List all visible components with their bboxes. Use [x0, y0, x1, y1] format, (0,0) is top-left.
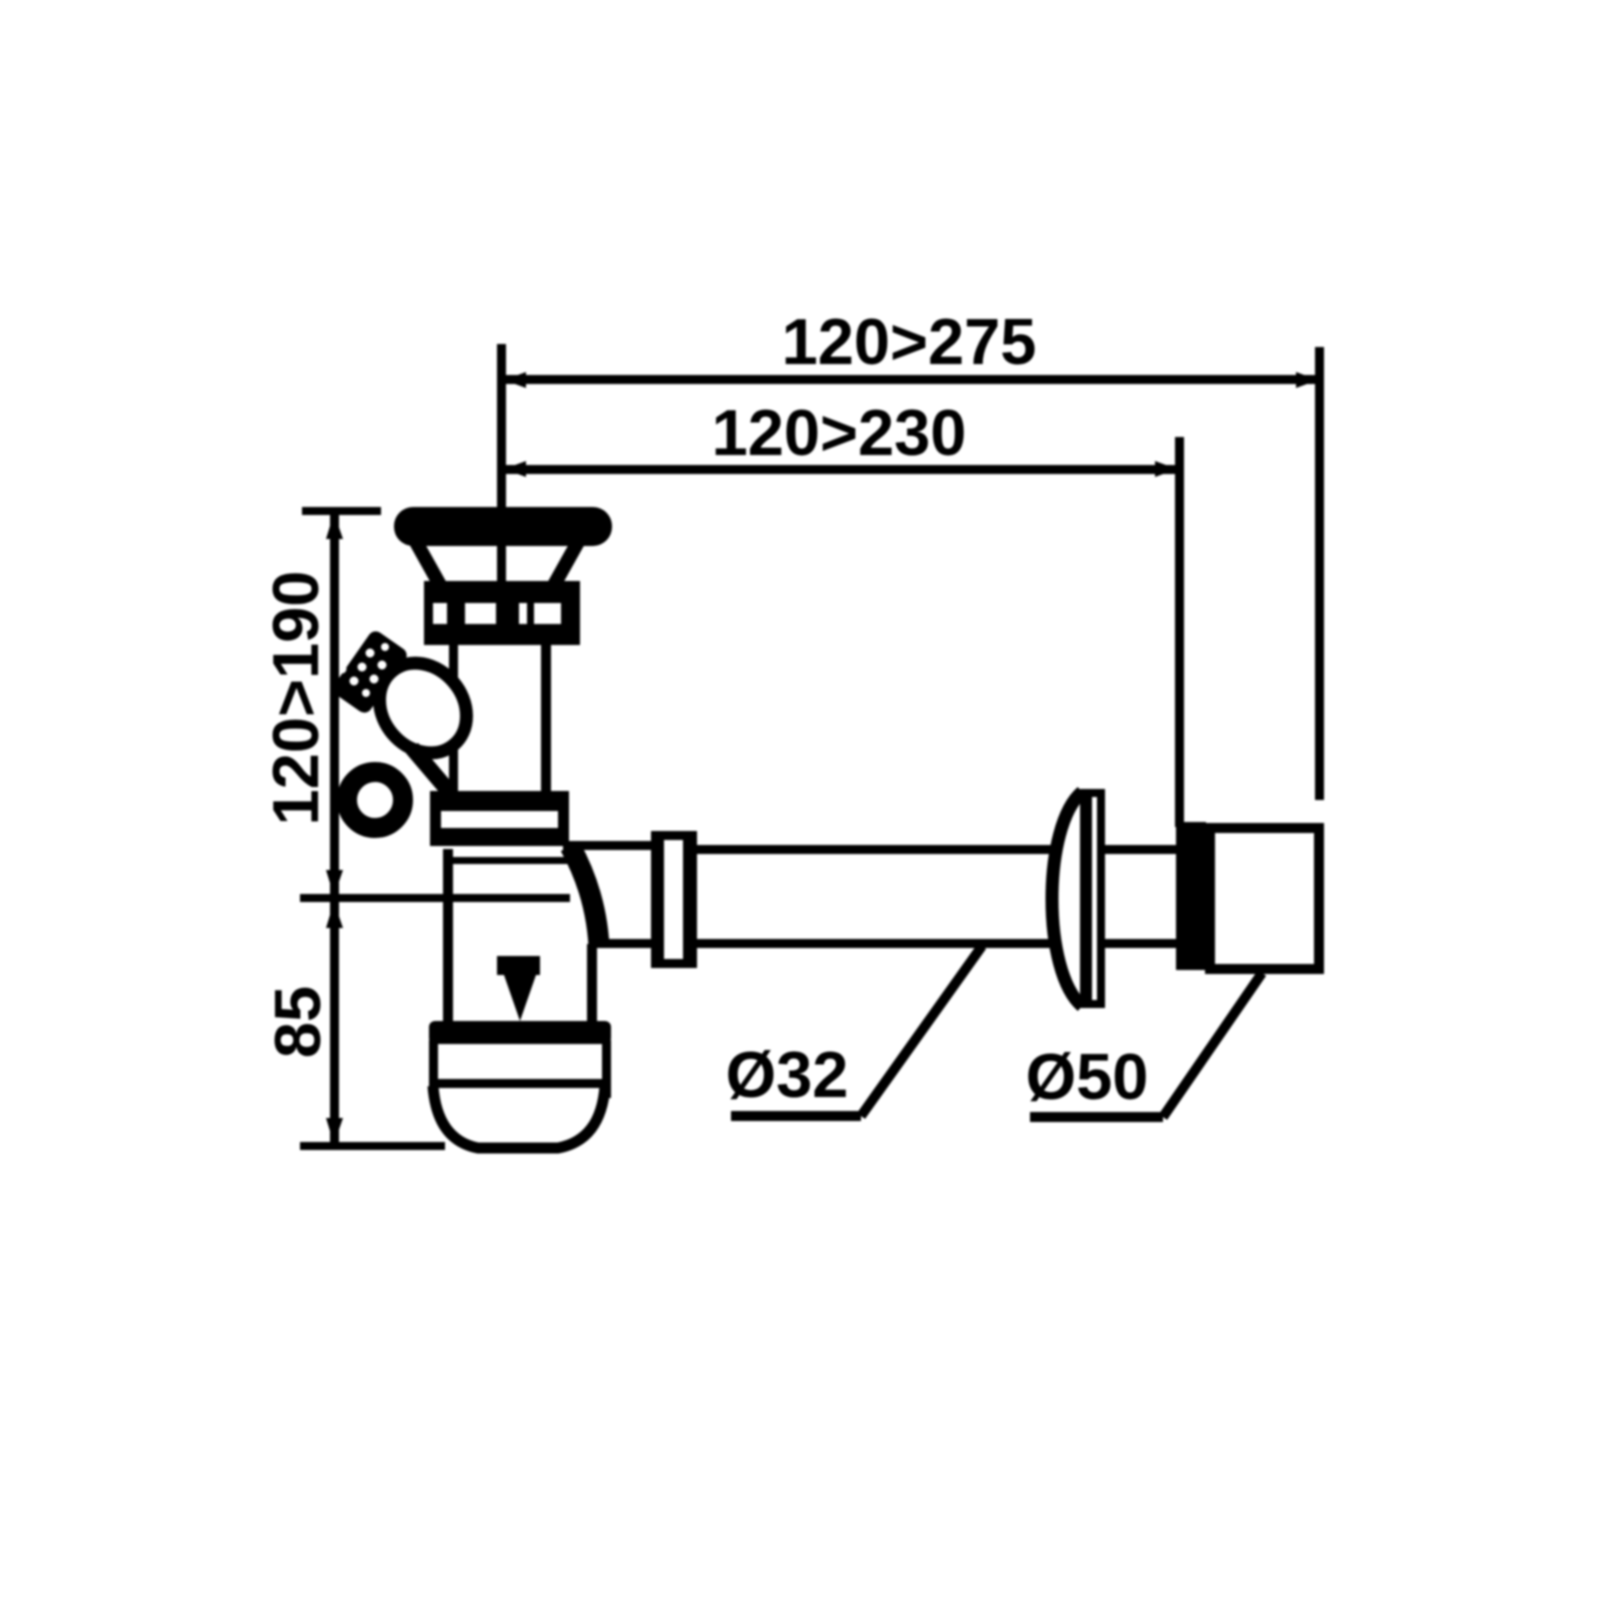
overflow knurled nut	[330, 628, 410, 715]
bottom extension line	[300, 1142, 445, 1150]
svg-text:Ø32: Ø32	[726, 1038, 849, 1111]
wall rosette disc	[1080, 789, 1105, 1008]
arrow bottom 120>190	[326, 870, 343, 896]
O50 underline	[1030, 1112, 1163, 1122]
svg-text:85: 85	[261, 986, 334, 1058]
horizontal pipe bottom edge	[697, 939, 1058, 948]
overflow connector to tailpipe	[412, 748, 452, 795]
top extension line (plug top)	[302, 507, 381, 515]
trap body washer line	[445, 857, 572, 864]
trap cap left wall	[429, 1040, 438, 1098]
svg-text:120>190: 120>190	[259, 571, 332, 826]
right extension line 275	[1315, 347, 1324, 800]
wall socket body	[1210, 828, 1319, 969]
arrow left 120>275	[504, 372, 526, 388]
arrow top 85	[326, 902, 343, 928]
trap inlet slip nut	[430, 791, 569, 846]
right extension line 230	[1175, 437, 1184, 827]
tailpipe right wall	[541, 645, 551, 795]
arrow right 120>230	[1155, 461, 1177, 477]
outlet slip nut	[651, 831, 697, 968]
arrow right 120>275	[1296, 372, 1318, 388]
drain plug flange (top disc)	[394, 507, 612, 546]
arrow top 120>190	[326, 513, 343, 539]
svg-text:120>275: 120>275	[782, 305, 1037, 378]
flow arrow in trap	[497, 956, 540, 1021]
wall rosette bell curve	[1052, 792, 1082, 1006]
outlet pipe top edge (trap side)	[563, 841, 651, 850]
trap cap dome	[433, 1086, 605, 1148]
middle extension line	[300, 894, 570, 902]
pipe edges after rosette	[1105, 845, 1180, 854]
trap cap top band	[429, 1021, 611, 1044]
tailpipe left wall	[449, 645, 458, 795]
arrow bottom 85	[326, 1118, 343, 1144]
dimension line 120>275	[502, 375, 1320, 384]
drain cone left edge	[416, 542, 440, 585]
drain cone right edge	[554, 542, 578, 585]
O32 underline	[731, 1111, 861, 1121]
trap cap right wall	[602, 1040, 611, 1098]
svg-text:Ø50: Ø50	[1026, 1040, 1149, 1113]
dimension centerline / left extension	[497, 344, 506, 624]
wall socket collar	[1176, 822, 1206, 970]
drain backnut	[424, 581, 580, 645]
O32 leader line	[861, 946, 982, 1116]
dimension line 120>230	[502, 465, 1179, 474]
trap outlet elbow wall	[570, 846, 599, 946]
O50 leader line	[1163, 973, 1262, 1117]
arrow left 120>230	[504, 461, 526, 477]
trap body left wall	[443, 849, 453, 1026]
overflow elbow body	[362, 646, 485, 771]
trap body right wall	[587, 944, 597, 1026]
overflow ring	[347, 772, 403, 828]
svg-text:120>230: 120>230	[712, 396, 967, 469]
left vertical dimension line	[330, 511, 339, 1146]
trap cap knurl line	[433, 1079, 606, 1088]
outlet pipe bottom edge (trap side)	[597, 939, 651, 948]
horizontal pipe top edge	[697, 845, 1058, 854]
